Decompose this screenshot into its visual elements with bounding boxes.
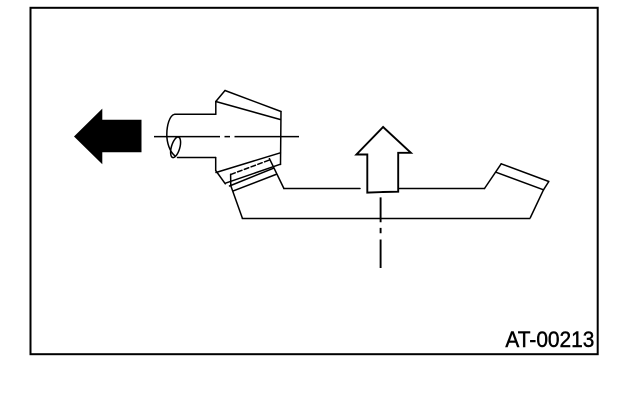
left edge upper — [215, 102, 217, 115]
right edge — [280, 112, 283, 165]
hidden dashed edge — [230, 160, 269, 175]
right edge — [530, 190, 543, 218]
left edge — [231, 174, 243, 218]
left flange inner line — [234, 175, 276, 191]
left slant edge — [269, 159, 284, 189]
left edge lower — [215, 158, 217, 171]
top outer edge — [225, 91, 281, 112]
right flange inner line — [496, 172, 543, 190]
trough bracket — [230, 159, 549, 219]
right flange end cap — [544, 182, 549, 190]
shaft end face ellipse — [169, 136, 183, 159]
bottom facet — [216, 171, 226, 184]
svg-text:AT-00213: AT-00213 — [505, 327, 594, 352]
border frame — [31, 8, 598, 354]
right flange top line — [501, 164, 549, 182]
top edge left segment — [284, 188, 360, 190]
right slant edge — [485, 164, 502, 189]
bottom edge — [242, 218, 530, 220]
bottom inner edge — [216, 153, 280, 173]
solid left arrow — [74, 109, 142, 165]
bevel gear cone — [216, 91, 281, 184]
top facet — [216, 91, 225, 102]
top inner edge — [216, 102, 280, 120]
vertical dash-dot centerline — [380, 197, 382, 268]
outlined up arrow — [356, 127, 411, 193]
pinion shaft cylinder — [167, 114, 216, 158]
bottom outer edge — [225, 164, 280, 183]
horizontal dash-dot centerline — [154, 136, 299, 138]
left flange outer line — [230, 168, 274, 186]
top edge right segment — [400, 188, 485, 190]
